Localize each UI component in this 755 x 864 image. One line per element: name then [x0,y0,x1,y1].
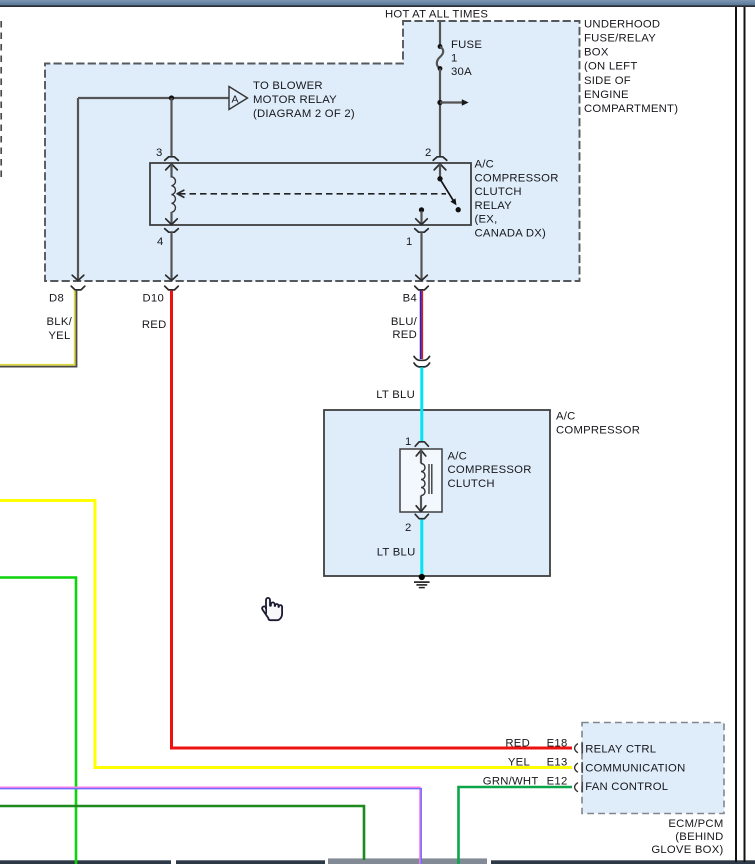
svg-text:FUSE: FUSE [451,39,482,51]
svg-text:CLUTCH: CLUTCH [475,186,522,198]
wire VIO/PNK from left edge down [0,787,420,864]
svg-text:A/C: A/C [475,159,495,171]
svg-text:BLK/: BLK/ [47,316,73,328]
A/C compressor box [324,410,550,576]
svg-text:A/C: A/C [556,411,576,423]
pin E13 arc [575,763,578,772]
junction node with branch arrow [437,100,442,105]
connector D8 exit cup [71,286,85,290]
svg-text:CANADA DX): CANADA DX) [475,227,547,239]
dashed stub line at left screen edge [0,21,2,180]
svg-text:D10: D10 [143,293,164,305]
svg-text:1: 1 [451,53,458,65]
in-line connector (B4 to compressor) [414,356,430,360]
svg-text:FUSE/RELAY: FUSE/RELAY [584,33,656,45]
svg-text:E18: E18 [547,738,568,750]
svg-text:LT BLU: LT BLU [377,547,416,559]
svg-text:SIDE OF: SIDE OF [584,75,631,87]
svg-text:(ON LEFT: (ON LEFT [584,61,637,73]
bottom bar segments [0,860,171,864]
underhood fuse/relay box (dashed, light blue) [45,21,580,281]
clutch core lines [428,464,430,494]
svg-text:COMPRESSOR: COMPRESSOR [475,172,559,184]
connector D10 exit cup [165,286,179,290]
svg-text:RELAY CTRL: RELAY CTRL [585,744,656,756]
wire left branch down to D8 exit [77,98,79,280]
wire GRN/WHT up to ECM E12 [459,787,573,864]
svg-text:GRN/WHT: GRN/WHT [483,776,539,788]
switch arm (open) [441,180,454,201]
connector B4 exit cup [415,286,429,290]
wire LT BLU clutch pin 2 to ground [420,520,423,578]
triangle A (to blower motor relay) [229,87,248,110]
pin E18 arc [575,744,578,753]
svg-text:B4: B4 [403,293,417,305]
A/C compressor clutch coil box [400,449,442,512]
pin 4 connector cup [165,229,179,233]
wire YEL from left edge to ECM E13 [0,501,572,768]
svg-text:RED: RED [142,319,167,331]
svg-text:D8: D8 [49,293,64,305]
clutch entry chevron [416,450,426,456]
ECM/PCM box [582,723,724,814]
wire DK GRN from left edge down [0,806,364,860]
svg-text:UNDERHOOD: UNDERHOOD [584,19,660,31]
svg-text:RED: RED [392,329,417,341]
svg-text:2: 2 [405,522,412,534]
pin 1 connector cap (clutch) [415,442,428,446]
svg-text:1: 1 [405,436,412,448]
pin 2 connector cup (clutch) [415,514,428,518]
svg-text:GLOVE BOX): GLOVE BOX) [651,844,723,856]
junction node dot [169,95,174,100]
pin 1 connector cup [415,229,429,233]
pin 3 entry arrow chevron [166,164,178,170]
wire fuse to relay pin 2 [439,69,441,157]
svg-text:CLUTCH: CLUTCH [448,478,495,490]
svg-text:TO BLOWER: TO BLOWER [253,80,323,92]
internal dashed link coil to switch [179,193,446,195]
pin 3 connector cap [165,157,179,161]
pin E12 arc [575,783,578,792]
pin 2 connector cap [433,157,447,161]
svg-text:(DIAGRAM 2 OF 2): (DIAGRAM 2 OF 2) [253,108,355,120]
svg-text:LT BLU: LT BLU [376,389,415,401]
fuse 1 (30A) [437,44,443,71]
mouse hand cursor [262,598,282,620]
svg-text:(BEHIND: (BEHIND [675,831,723,843]
svg-text:COMPRESSOR: COMPRESSOR [448,464,532,476]
svg-text:4: 4 [157,236,164,248]
clutch exit chevron [416,506,426,512]
svg-text:YEL: YEL [48,330,70,342]
svg-text:E13: E13 [547,756,568,768]
svg-text:COMPRESSOR: COMPRESSOR [556,425,640,437]
svg-text:2: 2 [425,147,432,159]
right page border double lines [735,7,737,862]
svg-text:A: A [232,94,239,106]
svg-text:30A: 30A [451,66,472,78]
A/C compressor clutch relay box [150,163,471,225]
svg-text:E12: E12 [547,776,568,788]
svg-text:1: 1 [406,236,413,248]
svg-text:YEL: YEL [508,756,530,768]
switch common contact [437,176,442,181]
svg-text:RED: RED [505,738,530,750]
clutch coil [421,464,425,496]
switch output contact [419,207,424,212]
svg-text:(EX,: (EX, [475,214,498,226]
svg-text:3: 3 [156,147,163,159]
wire BLK/YEL from D8 (two-tone) [0,291,75,365]
svg-text:BLU/: BLU/ [391,316,418,328]
svg-text:RELAY: RELAY [475,200,513,212]
ground [419,574,425,580]
wire horizontal to blower motor relay tap [78,97,229,99]
svg-text:ENGINE: ENGINE [584,89,629,101]
relay coil [172,177,176,212]
svg-text:FAN CONTROL: FAN CONTROL [585,781,668,793]
svg-text:BOX: BOX [584,47,609,59]
svg-text:COMMUNICATION: COMMUNICATION [585,763,685,775]
svg-text:COMPARTMENT): COMPARTMENT) [584,103,678,115]
wire BLU/RED from B4 [420,291,422,360]
svg-text:A/C: A/C [448,451,468,463]
coil exit to pin 4 [170,212,172,224]
svg-text:HOT AT ALL TIMES: HOT AT ALL TIMES [385,9,488,21]
wire hot feed to fuse [439,22,441,47]
output to pin 1 [420,211,422,224]
wire LT BLU into clutch pin 1 [420,367,423,441]
wire relay pin3 up to junction [170,98,172,156]
svg-text:ECM/PCM: ECM/PCM [668,818,723,830]
wire RED from D10 to ECM E18 [172,291,573,749]
wire GRN (bright) left edge down [0,578,76,864]
wire pin 1 down to B4 exit [420,232,422,279]
svg-text:MOTOR RELAY: MOTOR RELAY [253,94,337,106]
pin 2 entry arrow chevron [434,164,446,170]
wire pin 4 down to D10 exit [170,232,172,279]
